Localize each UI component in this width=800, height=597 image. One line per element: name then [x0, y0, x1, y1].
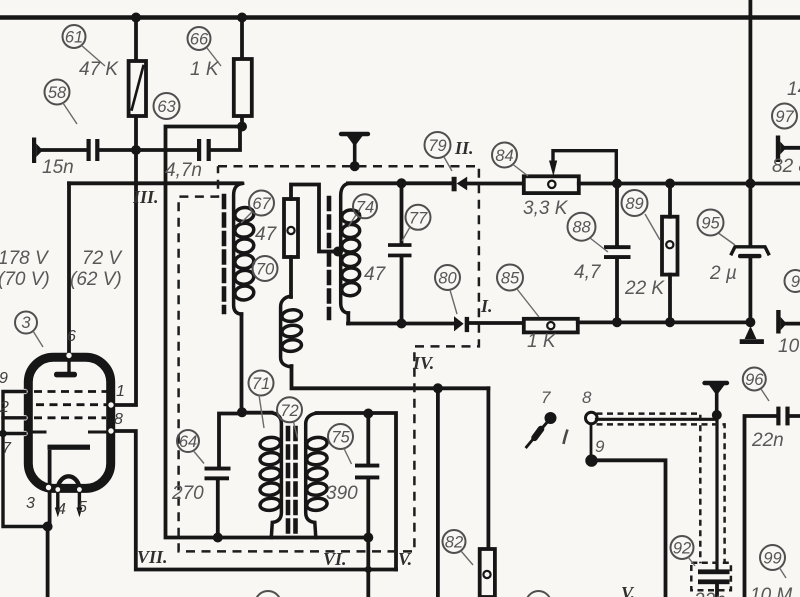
- pin6 inner electrode bar: [67, 357, 70, 373]
- wire pin7: [3, 432, 25, 435]
- coupling coil (to pin area): [281, 296, 303, 367]
- wire to resistor 82: [486, 388, 490, 549]
- wire cap64 top lead: [219, 414, 242, 468]
- cap96 leads: [745, 416, 800, 597]
- svg-text:8: 8: [582, 388, 592, 407]
- capacitor C77: [388, 243, 412, 257]
- svg-text:(62 V): (62 V): [70, 269, 122, 290]
- potentiometer R84 3.3K: [524, 176, 579, 193]
- svg-text:47: 47: [364, 264, 387, 285]
- svg-text:8: 8: [114, 411, 123, 428]
- shielded cable core wire: [597, 419, 718, 569]
- resistor R61 47K (VDR, diagonal): [129, 61, 146, 116]
- wire coil70 bottom down to tank top: [240, 314, 244, 413]
- resistor R66 1K: [234, 59, 252, 116]
- svg-text:178 V: 178 V: [0, 248, 50, 269]
- contact 8 (open): [586, 412, 598, 424]
- ref circle 80: [435, 265, 460, 290]
- ref circle 82: [443, 530, 466, 553]
- contact 9 (closed): [585, 454, 597, 466]
- leader 77: [402, 227, 410, 241]
- tick mark near plug 7: [564, 430, 568, 445]
- leader 67: [241, 212, 252, 223]
- ref circle 97: [772, 104, 797, 129]
- capacitor C95 2u electrolytic: [732, 247, 769, 254]
- plug contact 7: [545, 412, 557, 424]
- tube pin numbers: [0, 328, 125, 518]
- leader 80: [450, 290, 457, 314]
- svg-text:75: 75: [331, 429, 350, 447]
- svg-text:3: 3: [21, 314, 31, 332]
- wire terminal to cap 58: [43, 148, 87, 152]
- svg-text:63: 63: [157, 98, 176, 116]
- svg-text:15n: 15n: [42, 157, 74, 178]
- wire cap63 right to 1K bottom junction: [211, 127, 240, 151]
- terminal input 15n: [32, 138, 43, 164]
- node 22K bottom: [665, 317, 675, 327]
- node 2u top: [745, 179, 755, 189]
- wire 1K bottom to junction and left then down to tank rail: [166, 116, 369, 538]
- node bus-47K: [131, 13, 141, 23]
- R89 leads: [668, 184, 672, 323]
- shield ground symbol over IF2: [341, 132, 368, 136]
- heater arrow pin4: [55, 508, 61, 518]
- node 22K top: [665, 179, 675, 189]
- wire cathode rail left of tube: [3, 392, 48, 527]
- wire box-resistor bottom to coupling coil: [289, 257, 293, 297]
- resistor R82: [480, 549, 495, 597]
- node cap390 bottom: [363, 533, 373, 543]
- cap390 leads: [366, 414, 370, 597]
- svg-text:88: 88: [572, 219, 591, 237]
- ref circle 72: [277, 397, 302, 422]
- node 47K-line y150: [131, 145, 141, 155]
- wire coil74 top line to diode 79: [348, 181, 452, 185]
- wire tank top secondary: [317, 413, 397, 570]
- diode D79: [452, 177, 468, 192]
- svg-text:67: 67: [252, 195, 271, 213]
- node AF junction: [433, 383, 443, 393]
- svg-text:82: 82: [445, 534, 463, 552]
- wire pin2: [3, 416, 25, 419]
- coil L67/70: [234, 183, 255, 314]
- svg-text:9: 9: [595, 437, 605, 456]
- grid dashed row 2: [36, 403, 108, 406]
- ref circle 63: [154, 93, 180, 119]
- anode bar: [48, 445, 91, 450]
- svg-text:390: 390: [326, 483, 358, 504]
- wire pot84 to right edge: [579, 182, 800, 186]
- node cap64 bottom: [213, 533, 223, 543]
- ref circle 70: [253, 256, 278, 281]
- ref circle 73 partial bottom: [255, 591, 281, 597]
- svg-text:77: 77: [409, 209, 428, 227]
- leader 3: [33, 331, 43, 347]
- svg-text:92: 92: [673, 540, 691, 558]
- ref circle 89: [622, 190, 648, 216]
- leader 82: [461, 551, 473, 565]
- ref circle 79: [425, 132, 451, 158]
- svg-text:84: 84: [495, 147, 513, 165]
- wire coil74 bottom lead: [346, 313, 350, 324]
- wire detector lower line right part: [578, 320, 751, 324]
- wire diode80 to pot 85: [469, 321, 524, 325]
- diode D80: [454, 316, 469, 332]
- capacitor C92 22n: [698, 569, 730, 584]
- leader 64: [194, 452, 204, 464]
- ref circle 74: [353, 194, 377, 218]
- cap92 bottom lead: [715, 584, 719, 597]
- leader 95: [719, 234, 735, 246]
- svg-text:3,3 K: 3,3 K: [523, 198, 569, 219]
- capacitor C75 390: [355, 464, 379, 480]
- capacitor C63 4.7n: [197, 139, 211, 161]
- svg-text:14: 14: [787, 79, 800, 100]
- ground symbol: [740, 326, 764, 344]
- node cap390 top: [363, 409, 373, 419]
- node ground 2u: [745, 317, 755, 327]
- grid dashed row 3: [34, 416, 106, 419]
- pin white dots on envelope: [22, 353, 113, 492]
- node coil74 tap: [333, 247, 343, 257]
- dashed shield outline II/IV/VI: [179, 166, 479, 551]
- wire tank top primary: [242, 411, 272, 415]
- svg-text:I.: I.: [480, 296, 493, 316]
- leader 88: [590, 238, 608, 252]
- node rail pin7: [0, 430, 7, 438]
- ref circle 92: [671, 536, 694, 559]
- node cap77 bottom: [397, 319, 407, 329]
- capacitor C88 4.7: [604, 245, 631, 259]
- svg-text:79: 79: [428, 137, 446, 155]
- wire detector lower line left part: [348, 322, 454, 326]
- svg-text:7: 7: [2, 440, 12, 457]
- leader 74: [348, 215, 356, 227]
- svg-text:97: 97: [775, 108, 794, 126]
- leader 71: [259, 395, 264, 428]
- svg-text:V.: V.: [398, 549, 412, 569]
- svg-text:70: 70: [256, 261, 275, 279]
- node bus-1K: [237, 13, 247, 23]
- svg-text:5: 5: [78, 499, 87, 516]
- svg-text:(70 V): (70 V): [0, 269, 50, 290]
- ref circle 88: [568, 213, 596, 241]
- leader 92: [688, 557, 695, 566]
- coil L71: [259, 413, 281, 538]
- svg-text:95: 95: [701, 215, 720, 233]
- heater filament arc: [58, 476, 80, 487]
- svg-text:II.: II.: [454, 138, 474, 158]
- svg-text:80: 80: [438, 270, 457, 288]
- potentiometer R85 1K: [524, 319, 578, 333]
- cap95 leads: [749, 184, 753, 323]
- wire cap64 bottom lead: [216, 480, 220, 537]
- node cap77 top: [397, 178, 407, 188]
- switch stub 8-9: [590, 425, 593, 455]
- svg-text:66: 66: [190, 31, 209, 49]
- svg-text:4: 4: [57, 501, 66, 518]
- svg-text:9: 9: [0, 370, 8, 387]
- ref circle 64: [177, 430, 199, 452]
- svg-text:9: 9: [791, 273, 800, 291]
- svg-text:2 µ: 2 µ: [709, 263, 737, 284]
- svg-text:10: 10: [778, 336, 800, 357]
- svg-text:99: 99: [763, 550, 781, 568]
- svg-text:47: 47: [255, 224, 278, 245]
- svg-text:96: 96: [745, 371, 764, 389]
- ref circle 75: [328, 424, 353, 449]
- svg-text:64: 64: [179, 433, 197, 451]
- svg-text:74: 74: [356, 198, 374, 216]
- ref circle 85: [497, 265, 523, 291]
- leader 61: [81, 45, 105, 66]
- svg-text:4,7: 4,7: [574, 262, 602, 283]
- leader 89: [645, 214, 660, 240]
- leader 75: [344, 449, 352, 465]
- node tank top left: [237, 407, 247, 417]
- svg-text:VII.: VII.: [137, 547, 168, 567]
- wire screen line y183 from pin6 to coil67: [69, 181, 241, 185]
- svg-text:10 M: 10 M: [750, 585, 792, 597]
- leader 79: [444, 157, 452, 171]
- svg-text:6: 6: [67, 328, 76, 345]
- wire diode79 to pot 84: [467, 182, 524, 186]
- wire box-resistor top to coil74 tap: [291, 185, 335, 252]
- svg-text:22n: 22n: [751, 430, 784, 451]
- wire coupling coil down and right to AF line: [292, 366, 489, 388]
- svg-text:85: 85: [501, 270, 520, 288]
- svg-text:89: 89: [625, 195, 643, 213]
- heater arrow pin5: [76, 508, 82, 518]
- ref circle 3: [15, 312, 37, 334]
- leader 72: [294, 422, 298, 438]
- anode lead down through envelope: [48, 450, 52, 527]
- ref circle 71: [249, 371, 274, 396]
- svg-text:3: 3: [26, 495, 35, 512]
- ref circle partial bottom center: [526, 591, 551, 597]
- node cap88 bottom: [612, 317, 622, 327]
- node cap390 lead crossing lower rail: [365, 566, 372, 573]
- ref circle 67: [249, 191, 274, 216]
- capacitor C64 270: [205, 467, 231, 481]
- potentiometer R89 22K: [662, 217, 678, 275]
- valve V3 (tube): [22, 353, 113, 527]
- wire cap58 to node: [99, 148, 136, 152]
- svg-text:72: 72: [280, 402, 298, 420]
- ref circle 95: [698, 210, 724, 236]
- terminal 10 right edge: [776, 310, 786, 334]
- ref circle 99: [760, 545, 785, 570]
- wire cathode down to bottom edge: [46, 527, 50, 597]
- cap88 leads: [615, 184, 619, 323]
- cap92 dashed shield box: [691, 563, 731, 591]
- ref circle 96: [743, 368, 766, 391]
- heater legs: [58, 487, 80, 508]
- capacitor C96 22n: [776, 407, 789, 426]
- core of IF transformer 2: [327, 198, 332, 318]
- ref circle 61: [63, 25, 86, 48]
- core of IF transformer 1: [222, 196, 227, 312]
- svg-text:71: 71: [252, 375, 270, 393]
- svg-text:IV.: IV.: [412, 353, 434, 373]
- svg-text:2: 2: [0, 399, 9, 416]
- svg-text:1 K: 1 K: [527, 331, 557, 352]
- leader 99: [779, 567, 786, 578]
- ref circle 84: [492, 143, 517, 168]
- screen split line: [28, 431, 109, 434]
- node shield on dashed box: [350, 161, 360, 171]
- svg-text:1 K: 1 K: [190, 59, 220, 80]
- ref circle 9x right edge: [785, 270, 800, 292]
- terminal 82a top right: [776, 136, 786, 163]
- leader 66: [207, 48, 221, 66]
- wiper arrow of R84: [553, 151, 616, 184]
- wire pin8 grid line down and right to output corner: [111, 431, 396, 570]
- ref circle 58: [45, 80, 70, 105]
- svg-text:47 K: 47 K: [79, 59, 119, 80]
- node cathode junction: [43, 522, 53, 532]
- node 1K bottom: [237, 122, 247, 132]
- coil L75: [306, 413, 328, 538]
- adjustable resistor between IF coils: [284, 199, 298, 257]
- node cable shield ground: [712, 410, 722, 420]
- wire pin6 vertical: [67, 183, 71, 357]
- leader 58: [63, 103, 77, 124]
- wire node to cap 63: [136, 148, 197, 152]
- svg-text:VI.: VI.: [323, 549, 347, 569]
- svg-text:4,7n: 4,7n: [165, 160, 202, 181]
- ref circle 77: [406, 205, 431, 230]
- leader 96: [761, 389, 769, 401]
- svg-text:82 8: 82 8: [772, 156, 800, 177]
- wire vertical drop right x750: [749, 0, 753, 184]
- svg-text:III.: III.: [132, 187, 159, 207]
- svg-text:22 K: 22 K: [624, 278, 665, 299]
- cap77 leads: [400, 183, 404, 323]
- ref circle 66: [188, 27, 211, 50]
- node cap88 top: [612, 179, 622, 189]
- svg-text:58: 58: [48, 84, 67, 102]
- svg-text:270: 270: [171, 483, 204, 504]
- svg-text:1: 1: [116, 383, 125, 400]
- coil L74: [341, 183, 361, 313]
- leader 85: [517, 289, 539, 317]
- svg-text:22n: 22n: [693, 590, 726, 597]
- wire contact9 to output: [597, 460, 666, 597]
- wire 47K top lead: [134, 18, 138, 62]
- svg-text:72 V: 72 V: [82, 248, 123, 269]
- tube envelope: [28, 357, 110, 488]
- capacitor C58 15n: [87, 139, 100, 161]
- shield ground symbol bottom right: [705, 381, 728, 385]
- roman numeral section labels: [132, 138, 635, 597]
- shielded cable dashed shield: [597, 414, 725, 564]
- wire 1K top lead: [240, 18, 244, 60]
- svg-text:61: 61: [65, 29, 83, 47]
- leader 84: [513, 165, 528, 177]
- grid dashed row 1: [34, 390, 108, 393]
- wire 47K bottom lead down to pin1: [111, 116, 136, 405]
- svg-text:V.: V.: [621, 583, 635, 597]
- svg-text:7: 7: [541, 388, 551, 407]
- wire top supply bus: [0, 15, 800, 19]
- wire AF junction down to bottom edge: [436, 388, 440, 597]
- core of transformer 71/72: [288, 428, 296, 535]
